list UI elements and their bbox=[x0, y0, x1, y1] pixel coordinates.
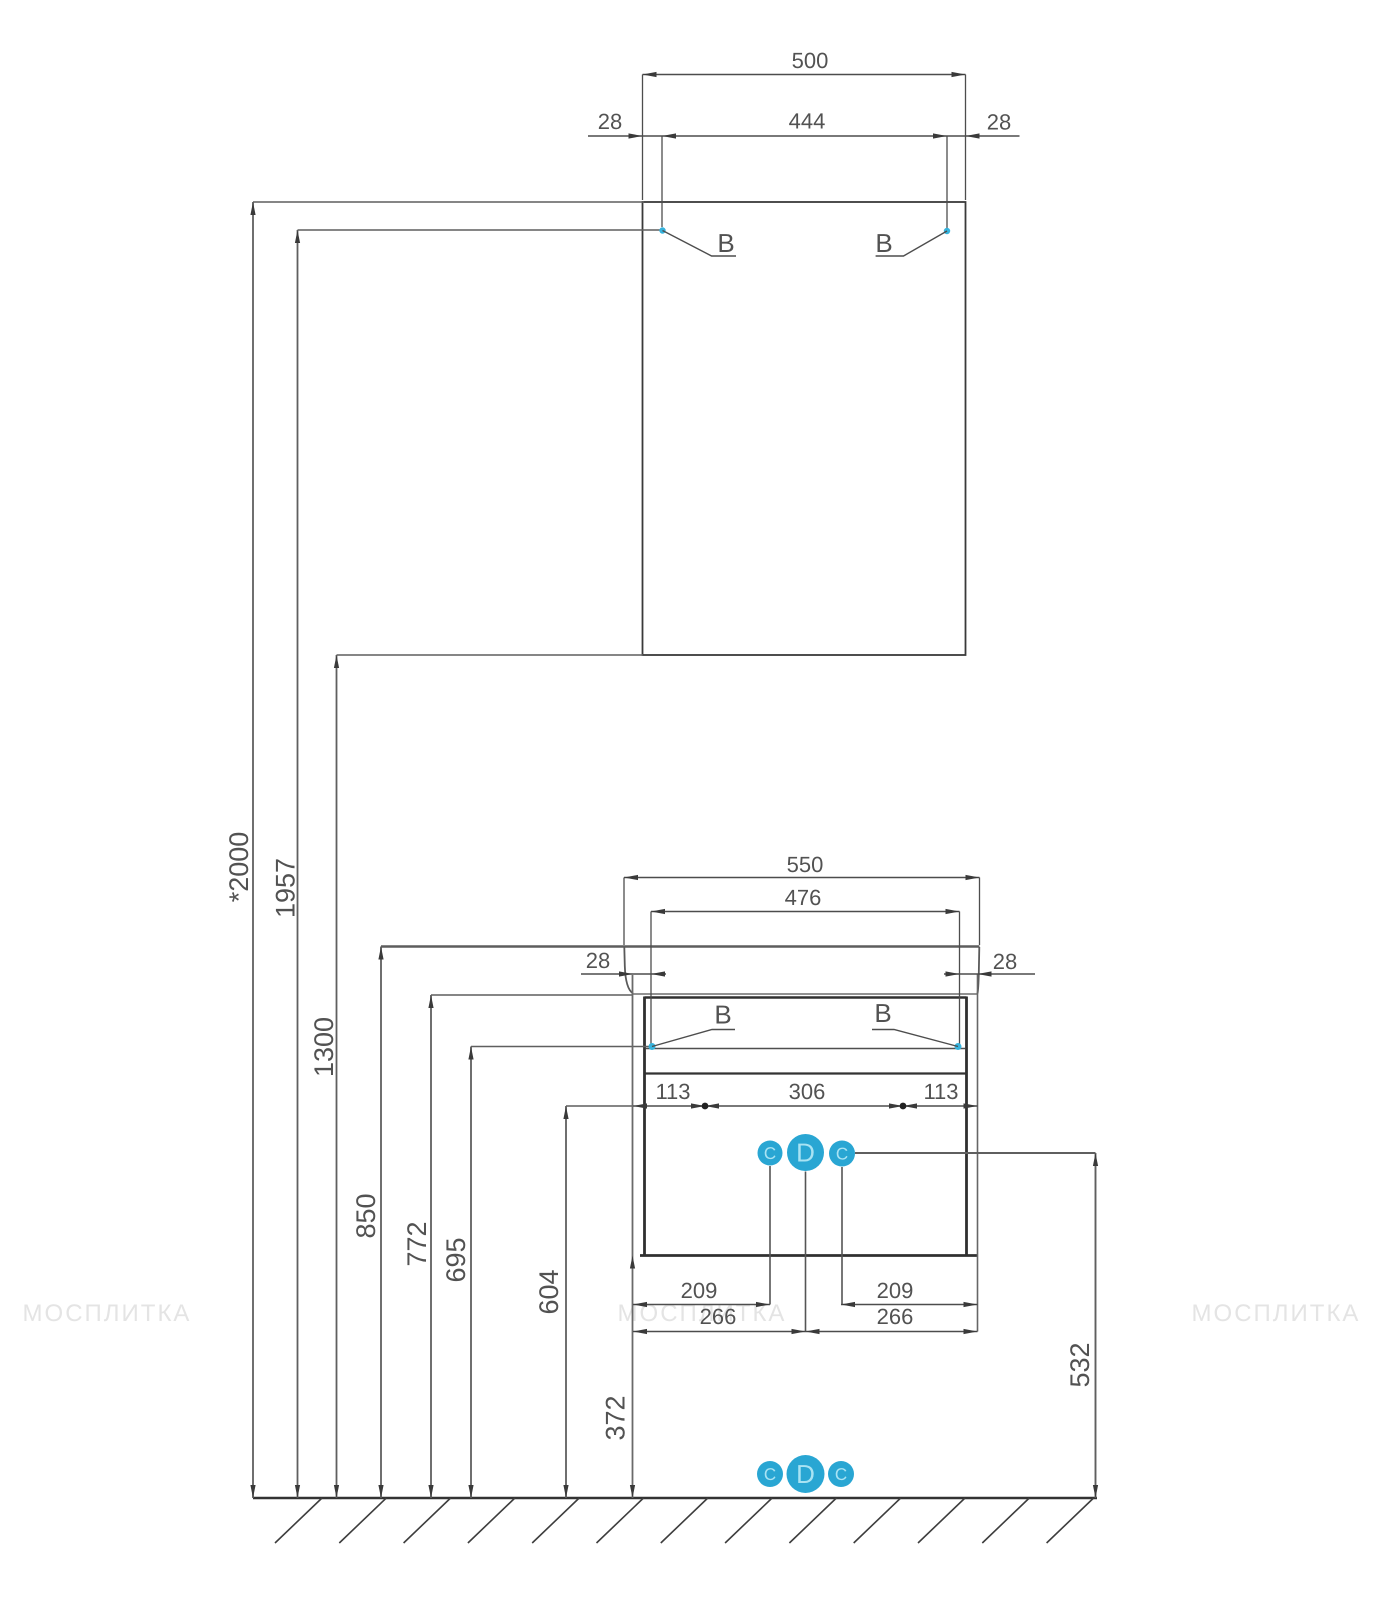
svg-text:28: 28 bbox=[987, 110, 1011, 135]
washbasin bottom lip bbox=[632, 993, 977, 995]
svg-text:306: 306 bbox=[789, 1079, 826, 1104]
cabinet hanger point B left bbox=[649, 1043, 656, 1050]
svg-text:D: D bbox=[796, 1459, 815, 1489]
svg-text:444: 444 bbox=[789, 109, 826, 134]
dimension 266 left bbox=[633, 1329, 978, 1334]
svg-text:МОСПЛИТКА: МОСПЛИТКА bbox=[23, 1300, 192, 1327]
siphon circle C upper right bbox=[829, 1141, 855, 1167]
dimension 28 lower left bbox=[581, 971, 666, 976]
siphon circle D upper bbox=[787, 1134, 824, 1171]
extension line to mirror top bbox=[253, 201, 644, 203]
svg-text:B: B bbox=[717, 228, 734, 258]
svg-text:*2000: *2000 bbox=[224, 832, 254, 903]
vertical dimension line 850 bbox=[378, 947, 383, 1499]
svg-text:C: C bbox=[764, 1465, 776, 1484]
drawer screw dot right bbox=[900, 1103, 907, 1110]
extension line to cabinet hanger B bbox=[471, 1046, 650, 1048]
vanity cabinet rail line bbox=[646, 1048, 966, 1050]
vertical dimension line *2000 bbox=[250, 202, 255, 1498]
svg-text:C: C bbox=[836, 1145, 848, 1164]
siphon circle C upper left bbox=[758, 1141, 783, 1166]
vanity cabinet left edge bbox=[643, 997, 646, 1257]
svg-text:209: 209 bbox=[877, 1278, 914, 1303]
vertical dimension line 1300 bbox=[334, 655, 339, 1498]
dimension 550 (washbasin width) bbox=[624, 875, 980, 945]
stem from circle D bbox=[805, 1172, 807, 1332]
svg-text:C: C bbox=[764, 1144, 776, 1163]
drawer screw dot left bbox=[702, 1103, 709, 1110]
svg-text:550: 550 bbox=[787, 852, 824, 877]
svg-text:695: 695 bbox=[441, 1237, 471, 1282]
svg-text:113: 113 bbox=[923, 1079, 958, 1104]
drain circle C bottom right bbox=[828, 1461, 854, 1487]
svg-text:28: 28 bbox=[993, 949, 1017, 974]
washbasin right profile bbox=[978, 947, 980, 994]
svg-text:372: 372 bbox=[601, 1395, 631, 1440]
floor hatching bbox=[275, 1498, 1094, 1543]
extension line from circle C to 532 bbox=[855, 1152, 1096, 1154]
svg-text:28: 28 bbox=[598, 109, 622, 134]
stem from circle C left bbox=[769, 1166, 771, 1305]
vertical dimension line 372 / washbasin side reference bbox=[630, 975, 635, 1498]
washbasin left profile bbox=[624, 947, 633, 994]
extension line to mirror bottom bbox=[337, 654, 644, 656]
cabinet hanger point B right bbox=[955, 1043, 962, 1050]
vertical dimension line 772 bbox=[428, 995, 433, 1498]
extension line to washbasin bottom bbox=[431, 994, 633, 996]
vanity cabinet bottom edge bbox=[640, 1254, 978, 1257]
svg-text:МОСПЛИТКА: МОСПЛИТКА bbox=[1192, 1300, 1361, 1327]
floor line bbox=[253, 1497, 1097, 1500]
dimension 209 right bbox=[841, 1302, 978, 1307]
svg-text:1957: 1957 bbox=[271, 858, 301, 918]
drain circle D bottom bbox=[787, 1455, 825, 1493]
svg-text:850: 850 bbox=[351, 1193, 381, 1238]
dimension 476 (cabinet hangers) bbox=[651, 909, 960, 1045]
vertical dimension line 532 bbox=[1093, 1153, 1098, 1498]
svg-text:532: 532 bbox=[1065, 1342, 1095, 1387]
svg-text:500: 500 bbox=[792, 48, 829, 73]
svg-text:772: 772 bbox=[402, 1221, 432, 1266]
dimension 444 with side offsets 28/28 (mirror hangers) bbox=[588, 133, 1020, 228]
svg-text:B: B bbox=[875, 228, 892, 258]
dimension 209 left bbox=[633, 1302, 770, 1307]
svg-text:1300: 1300 bbox=[309, 1017, 339, 1077]
svg-text:209: 209 bbox=[681, 1278, 718, 1303]
svg-text:266: 266 bbox=[700, 1304, 737, 1329]
dimension chain 113/306/113 (drawer screws) bbox=[633, 1103, 978, 1108]
svg-text:B: B bbox=[714, 1000, 731, 1030]
stem from circle C right bbox=[841, 1167, 843, 1305]
right side reference line bbox=[977, 974, 979, 1332]
vanity cabinet top edge bbox=[645, 996, 967, 998]
svg-text:D: D bbox=[796, 1138, 815, 1168]
vertical dimension line 1957 bbox=[295, 230, 300, 1498]
vertical dimension line 695 bbox=[468, 1047, 473, 1499]
svg-text:113: 113 bbox=[655, 1079, 690, 1104]
extension line to drawer screw line bbox=[566, 1105, 633, 1107]
mirror cabinet outline bbox=[643, 202, 966, 655]
dimension 28 lower right bbox=[944, 971, 1035, 976]
mirror hanger point B right bbox=[944, 228, 950, 234]
extension line to mirror hanger B bbox=[298, 229, 661, 231]
vertical dimension line 604 bbox=[563, 1106, 568, 1498]
dimension 500 (mirror width) bbox=[643, 72, 966, 200]
svg-text:266: 266 bbox=[877, 1304, 914, 1329]
svg-text:476: 476 bbox=[785, 885, 822, 910]
svg-text:B: B bbox=[874, 998, 891, 1028]
svg-text:28: 28 bbox=[586, 948, 610, 973]
mirror hanger point B left bbox=[659, 227, 665, 233]
vanity cabinet drawer divider bbox=[646, 1072, 966, 1074]
svg-text:C: C bbox=[835, 1465, 847, 1484]
drain circle C bottom left bbox=[757, 1461, 783, 1487]
vanity cabinet right edge bbox=[965, 997, 968, 1257]
svg-text:604: 604 bbox=[534, 1269, 564, 1314]
washbasin top line bbox=[381, 945, 980, 948]
